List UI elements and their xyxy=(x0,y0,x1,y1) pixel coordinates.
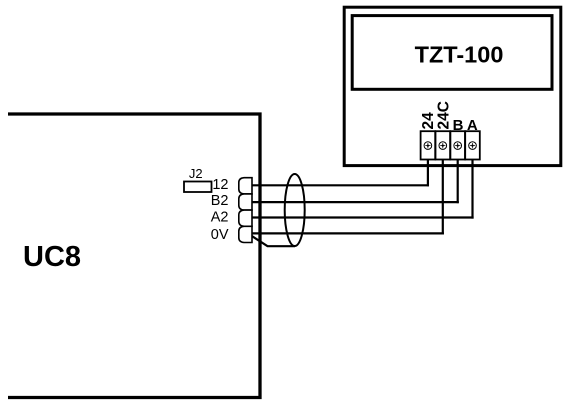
svg-text:J2: J2 xyxy=(189,166,203,181)
svg-text:24C: 24C xyxy=(435,101,452,129)
svg-text:UC8: UC8 xyxy=(23,241,81,273)
svg-text:TZT-100: TZT-100 xyxy=(415,42,504,68)
svg-text:0V: 0V xyxy=(211,227,229,243)
svg-text:12: 12 xyxy=(212,177,228,193)
svg-text:A2: A2 xyxy=(211,210,229,226)
svg-text:B2: B2 xyxy=(211,193,229,209)
